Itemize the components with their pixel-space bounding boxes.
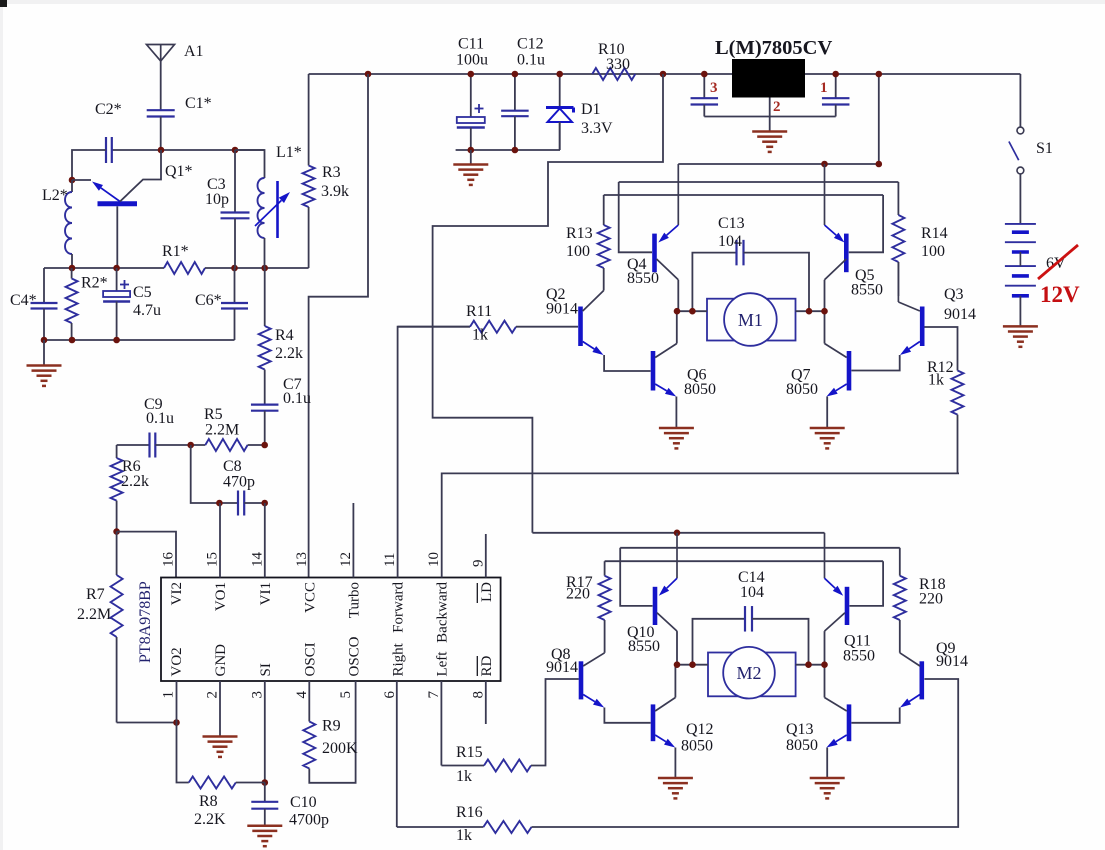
svg-text:C10: C10 xyxy=(290,794,317,811)
regulator output cap xyxy=(835,74,837,98)
svg-text:12: 12 xyxy=(338,552,354,567)
junction dot xyxy=(821,161,828,168)
svg-text:4700p: 4700p xyxy=(289,812,329,829)
node wire y445 xyxy=(117,444,150,446)
pin 9 stub xyxy=(485,534,487,578)
capacitor C8 branch xyxy=(191,445,238,503)
pin 6 wire Right xyxy=(396,681,398,827)
svg-text:RD: RD xyxy=(479,655,495,676)
svg-text:8050: 8050 xyxy=(684,381,716,398)
resistor R5 xyxy=(205,439,247,451)
svg-text:8050: 8050 xyxy=(786,381,818,398)
junction dot xyxy=(876,161,883,168)
wire bridge1 top rail xyxy=(678,163,879,165)
wire bridge1 base rail c xyxy=(604,194,883,196)
svg-text:9014: 9014 xyxy=(944,306,976,323)
capacitor C11 electrolytic xyxy=(470,74,472,117)
junction dot xyxy=(231,265,238,272)
svg-text:R9: R9 xyxy=(322,718,341,735)
svg-text:2: 2 xyxy=(205,691,221,699)
resistor R9 xyxy=(303,722,315,769)
junction dot xyxy=(512,71,519,78)
svg-text:2.2k: 2.2k xyxy=(275,345,303,362)
junction dot xyxy=(261,265,268,272)
junction dot xyxy=(674,530,681,537)
wire bridge2 base rail c xyxy=(605,560,884,562)
junction dot xyxy=(674,308,681,315)
svg-text:4: 4 xyxy=(294,691,310,699)
svg-text:R3: R3 xyxy=(322,164,341,181)
svg-text:8550: 8550 xyxy=(843,648,875,665)
wire R5 right xyxy=(248,444,265,446)
ground Q13 xyxy=(810,777,845,780)
ground C11 xyxy=(470,150,472,164)
transistor Q12 8050 xyxy=(651,704,656,741)
junction dot xyxy=(468,147,475,154)
svg-text:1: 1 xyxy=(160,691,176,699)
capacitor C5 electrolytic xyxy=(116,268,118,291)
transistor Q4 8550 xyxy=(652,234,657,273)
wire rail drop to bridge1 xyxy=(878,74,880,164)
svg-text:3.3V: 3.3V xyxy=(581,120,613,137)
svg-text:Q3: Q3 xyxy=(944,286,964,303)
resistor R3 xyxy=(308,74,310,166)
transistor Q2 9014 xyxy=(578,307,583,347)
junction dot xyxy=(158,147,165,154)
junction dot xyxy=(187,442,194,449)
regulator input cap xyxy=(703,74,705,98)
wire C2 left corner xyxy=(72,150,106,180)
svg-text:C11: C11 xyxy=(458,36,484,53)
wire rail to VCC pin13 xyxy=(309,74,368,578)
ground regulator xyxy=(752,130,787,133)
svg-text:3: 3 xyxy=(249,691,265,699)
svg-text:2.2M: 2.2M xyxy=(205,422,239,439)
svg-text:Q13: Q13 xyxy=(786,721,814,738)
junction dot xyxy=(805,661,812,668)
wire antenna to C1 xyxy=(160,61,162,110)
svg-text:OSCO: OSCO xyxy=(346,636,362,676)
wire R6 junction to pin16 xyxy=(117,532,176,578)
svg-text:3.9k: 3.9k xyxy=(321,183,349,200)
junction dot xyxy=(69,177,76,184)
junction dot xyxy=(689,308,696,315)
resistor R12 xyxy=(952,371,964,415)
svg-text:Backward: Backward xyxy=(435,582,451,643)
resistor R15 xyxy=(441,765,484,767)
ground RF xyxy=(43,340,45,365)
Q1 emitter xyxy=(101,188,120,202)
ground battery xyxy=(1003,325,1038,328)
pin 3 wire SI xyxy=(264,681,266,783)
svg-text:0.1u: 0.1u xyxy=(283,390,311,407)
svg-text:12V: 12V xyxy=(1040,282,1080,307)
junction dot xyxy=(69,265,76,272)
svg-text:9: 9 xyxy=(470,560,486,568)
wire motor2 node left xyxy=(677,664,708,666)
resistor R7 xyxy=(116,532,118,575)
svg-text:VO2: VO2 xyxy=(169,647,185,676)
junction dot xyxy=(556,71,563,78)
svg-text:14: 14 xyxy=(249,552,265,568)
svg-text:R1*: R1* xyxy=(162,243,189,260)
resistor R8 xyxy=(177,723,189,783)
pin2 stem xyxy=(769,98,771,132)
regulator U2 L(M)7805CV xyxy=(732,59,805,98)
svg-text:S1: S1 xyxy=(1036,140,1053,157)
transistor Q3 9014 xyxy=(920,307,925,347)
svg-text:200K: 200K xyxy=(322,740,358,757)
junction dot xyxy=(261,442,268,449)
svg-text:100: 100 xyxy=(566,243,590,260)
L1 variable bar xyxy=(276,181,279,238)
cap bottom wire xyxy=(704,116,835,118)
pin 14 wire xyxy=(264,503,266,578)
main rail left segment xyxy=(309,73,732,75)
svg-text:2.2M: 2.2M xyxy=(77,606,111,623)
svg-text:15: 15 xyxy=(205,552,221,567)
svg-text:R7: R7 xyxy=(86,586,105,603)
capacitor C6* xyxy=(234,268,236,303)
ground Q7 xyxy=(810,427,845,430)
transistor Q11 8550 xyxy=(845,587,850,625)
svg-text:10: 10 xyxy=(426,552,442,567)
wire R7 to pin1 node xyxy=(117,722,177,724)
svg-text:104: 104 xyxy=(740,584,764,601)
svg-text:2.2K: 2.2K xyxy=(194,811,226,828)
L1 variable arrow xyxy=(255,200,281,226)
junction dot xyxy=(512,147,519,154)
capacitor C4* xyxy=(43,268,45,303)
junction dot rail xyxy=(365,71,372,78)
pin 12 stub xyxy=(352,503,354,578)
transistor Q8 9014 xyxy=(579,661,584,699)
svg-text:1: 1 xyxy=(820,80,828,96)
junction dot xyxy=(113,337,120,344)
resistor R16 xyxy=(397,826,484,828)
switch S1 xyxy=(1017,127,1024,134)
svg-text:VI1: VI1 xyxy=(258,582,274,605)
svg-text:2.2k: 2.2k xyxy=(121,473,149,490)
Q1 base wire xyxy=(116,206,118,268)
capacitor C13 xyxy=(692,253,736,312)
resistor R4 xyxy=(264,268,266,326)
svg-text:5: 5 xyxy=(338,691,354,699)
svg-text:3: 3 xyxy=(710,80,718,96)
wire S1 to battery xyxy=(1019,174,1021,224)
resistor R10 xyxy=(592,68,635,80)
motor M2 xyxy=(708,653,796,697)
battery B1 xyxy=(1005,223,1036,225)
main rail right segment xyxy=(805,73,1020,75)
ground C10 xyxy=(247,825,282,828)
svg-text:1k: 1k xyxy=(472,327,488,344)
junction dot xyxy=(261,500,268,507)
svg-text:8050: 8050 xyxy=(786,737,818,754)
wire motor2 node right xyxy=(796,664,825,666)
svg-text:16: 16 xyxy=(160,552,176,568)
antenna A1 xyxy=(147,45,175,62)
ground Q6 xyxy=(659,427,694,430)
resistor R6 xyxy=(116,445,118,458)
pin 7 wire Left xyxy=(440,681,442,766)
svg-text:LD: LD xyxy=(479,582,495,602)
svg-text:R13: R13 xyxy=(566,225,593,242)
svg-text:R5: R5 xyxy=(204,406,223,423)
pin 8 stub xyxy=(485,681,487,724)
svg-text:13: 13 xyxy=(294,552,310,567)
svg-text:L1*: L1* xyxy=(276,144,302,161)
junction dot xyxy=(876,71,883,78)
svg-text:M2: M2 xyxy=(736,663,761,683)
ground Q12 xyxy=(658,777,693,780)
node wire y268 xyxy=(44,267,164,269)
inductor L2* xyxy=(71,180,73,192)
svg-text:R4: R4 xyxy=(275,327,294,344)
svg-text:R16: R16 xyxy=(456,804,483,821)
wire motor node left xyxy=(677,310,707,312)
wire bridge2 base rail b xyxy=(620,547,900,549)
wire C9 to R5 xyxy=(155,444,205,446)
svg-text:OSCI: OSCI xyxy=(302,642,318,676)
svg-text:C6*: C6* xyxy=(195,292,222,309)
transistor Q6 8050 xyxy=(651,351,656,391)
svg-text:Turbo: Turbo xyxy=(346,582,362,618)
junction dot xyxy=(173,719,180,726)
svg-text:R14: R14 xyxy=(921,225,948,242)
resistor R14 xyxy=(897,182,899,215)
svg-text:Forward: Forward xyxy=(391,582,407,633)
motor M1 xyxy=(707,299,796,341)
wire bridge1 base rail b xyxy=(619,181,899,183)
wire rail to S1 xyxy=(1019,74,1021,127)
wire motor node right xyxy=(796,310,825,312)
svg-text:8: 8 xyxy=(470,691,486,699)
svg-text:R8: R8 xyxy=(199,793,218,810)
pin 10 wire Backward xyxy=(442,473,959,577)
filter ground rail xyxy=(456,149,560,151)
pin 15 wire xyxy=(219,503,221,578)
svg-text:M1: M1 xyxy=(738,310,763,330)
svg-text:C8: C8 xyxy=(223,458,242,475)
svg-text:330: 330 xyxy=(606,56,630,73)
capacitor C9 xyxy=(148,433,150,458)
junction dot xyxy=(806,308,813,315)
junction dot xyxy=(701,71,708,78)
pin 2 ground xyxy=(219,681,221,736)
pin 11 wire Forward xyxy=(398,327,470,578)
pin 1 wire xyxy=(176,681,178,723)
svg-text:A1: A1 xyxy=(184,43,204,60)
resistor R17 xyxy=(604,561,606,576)
junction dot xyxy=(468,71,475,78)
svg-text:100: 100 xyxy=(921,243,945,260)
transistor Q10 8550 xyxy=(653,587,658,625)
wire 12V to bridge2 xyxy=(433,74,663,533)
node wire y150 xyxy=(112,149,265,151)
svg-text:220: 220 xyxy=(566,586,590,603)
capacitor C14 xyxy=(693,619,746,665)
svg-text:C1*: C1* xyxy=(185,95,212,112)
svg-text:C2*: C2* xyxy=(95,101,122,118)
wire R1 to R3 xyxy=(205,267,309,269)
junction dot xyxy=(113,528,120,535)
IC U1 PT8A978BP box xyxy=(161,578,501,682)
wire C1 to node xyxy=(160,117,162,151)
transistor Q13 8050 xyxy=(847,704,852,741)
svg-text:L2*: L2* xyxy=(42,187,68,204)
transistor Q5 8550 xyxy=(844,234,849,273)
resistor R18 xyxy=(899,548,901,576)
svg-text:9014: 9014 xyxy=(936,653,968,670)
capacitor C12 xyxy=(514,74,516,111)
svg-text:C5: C5 xyxy=(133,284,152,301)
svg-text:R15: R15 xyxy=(456,744,483,761)
svg-text:1k: 1k xyxy=(456,768,472,785)
wire bridge2 top rail xyxy=(532,532,824,534)
svg-text:Q12: Q12 xyxy=(686,721,714,738)
svg-text:R2*: R2* xyxy=(81,275,108,292)
svg-text:6: 6 xyxy=(382,691,398,699)
junction dot xyxy=(41,337,48,344)
svg-text:0.1u: 0.1u xyxy=(517,52,545,69)
svg-text:SI: SI xyxy=(258,663,274,676)
svg-text:11: 11 xyxy=(382,553,398,567)
svg-text:Q1*: Q1* xyxy=(165,163,193,180)
junction dot xyxy=(113,265,120,272)
zener diode D1 xyxy=(559,74,561,108)
svg-text:1k: 1k xyxy=(928,372,944,389)
capacitor C1* xyxy=(147,109,175,111)
resistor R1* xyxy=(164,262,205,274)
junction dot xyxy=(821,661,828,668)
svg-text:Right: Right xyxy=(391,642,407,676)
svg-text:GND: GND xyxy=(213,644,229,677)
svg-text:9014: 9014 xyxy=(546,659,578,676)
svg-text:VCC: VCC xyxy=(302,582,318,613)
svg-text:PT8A978BP: PT8A978BP xyxy=(137,581,154,663)
svg-text:D1: D1 xyxy=(581,101,601,118)
svg-text:4.7u: 4.7u xyxy=(133,302,161,319)
svg-text:8550: 8550 xyxy=(627,270,659,287)
svg-text:C12: C12 xyxy=(517,36,544,53)
junction dot xyxy=(821,308,828,315)
capacitor C10 xyxy=(264,783,266,802)
resistor R2* xyxy=(71,268,73,279)
svg-text:L(M)7805CV: L(M)7805CV xyxy=(715,37,832,59)
junction dot xyxy=(674,661,681,668)
svg-text:0.1u: 0.1u xyxy=(146,410,174,427)
junction dot xyxy=(69,337,76,344)
svg-text:9014: 9014 xyxy=(546,301,578,318)
junction dot xyxy=(216,500,223,507)
junction dot xyxy=(832,71,839,78)
inductor L1* xyxy=(235,150,265,178)
transistor Q9 9014 xyxy=(919,661,924,699)
capacitor C7 xyxy=(251,404,279,406)
pin 4 wire OSCI xyxy=(308,681,310,722)
svg-text:100u: 100u xyxy=(456,52,488,69)
svg-text:8550: 8550 xyxy=(628,638,660,655)
svg-text:470p: 470p xyxy=(223,474,255,491)
svg-text:10p: 10p xyxy=(205,191,229,208)
junction dot xyxy=(660,71,667,78)
svg-text:2: 2 xyxy=(773,99,781,115)
svg-text:220: 220 xyxy=(919,591,943,608)
svg-text:104: 104 xyxy=(718,233,742,250)
resistor R11 xyxy=(398,326,470,328)
junction dot xyxy=(232,147,239,154)
svg-text:Left: Left xyxy=(435,651,451,677)
svg-text:C4*: C4* xyxy=(10,292,37,309)
transistor Q1* bar xyxy=(98,201,138,206)
resistor R13 xyxy=(603,195,605,225)
svg-text:1k: 1k xyxy=(456,827,472,844)
capacitor C2* xyxy=(105,137,107,163)
svg-text:8050: 8050 xyxy=(681,738,713,755)
svg-text:R11: R11 xyxy=(466,303,492,320)
junction dot xyxy=(689,661,696,668)
Q1 collector xyxy=(120,150,161,202)
capacitor C3 xyxy=(234,150,236,213)
svg-text:C13: C13 xyxy=(718,215,745,232)
junction dot xyxy=(262,779,269,786)
svg-text:VO1: VO1 xyxy=(213,582,229,611)
svg-text:8550: 8550 xyxy=(851,282,883,299)
transistor Q7 8050 xyxy=(847,351,852,391)
svg-text:7: 7 xyxy=(426,691,442,699)
svg-text:VI2: VI2 xyxy=(169,582,185,605)
bottom wire y340 xyxy=(44,339,235,341)
